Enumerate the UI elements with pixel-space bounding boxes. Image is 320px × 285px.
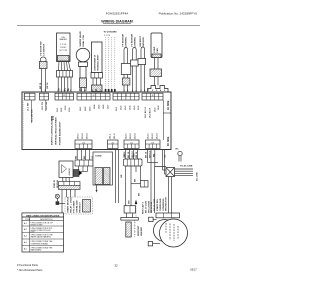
- svg-text:J4-1: J4-1: [79, 106, 82, 111]
- wire: [157, 58, 159, 70]
- wire: [162, 150, 164, 170]
- wire: [164, 150, 166, 174]
- wire: [135, 166, 137, 172]
- wire: [70, 77, 72, 92]
- wire: [68, 178, 70, 182]
- start device hatched: [83, 200, 91, 213]
- dispenser connector strip: [91, 73, 103, 79]
- svg-text:OR: OR: [121, 174, 123, 178]
- branch wire: [131, 183, 141, 185]
- wire: [137, 150, 139, 159]
- svg-text:J6-3: J6-3: [155, 107, 157, 112]
- arrow marker: [79, 171, 82, 175]
- svg-text:Publication No. 242289FFY0: Publication No. 242289FFY0: [159, 12, 198, 16]
- board connector J5: [113, 93, 139, 100]
- wire: [57, 77, 59, 92]
- board connector J1: [25, 93, 36, 100]
- wire: [180, 156, 182, 162]
- svg-text:J13-2: J13-2: [152, 133, 154, 139]
- svg-text:FZ DOOR SW: FZ DOOR SW: [41, 41, 43, 56]
- svg-text:J2-1 TN: J2-1 TN: [42, 102, 44, 110]
- wire: [61, 190, 63, 214]
- svg-text:J5-6: J5-6: [138, 105, 140, 110]
- svg-text:OR 18: OR 18: [47, 82, 49, 89]
- dashed harness wire: [108, 37, 110, 92]
- svg-text:05/17: 05/17: [190, 268, 197, 272]
- FZ thermistor loop: [133, 48, 137, 93]
- svg-text:ALARM: ALARM: [68, 168, 71, 175]
- wire: [64, 77, 66, 92]
- svg-text:OVERLOAD: OVERLOAD: [75, 200, 78, 213]
- svg-text:VERTICAL MULLION MAIN: VERTICAL MULLION MAIN: [55, 117, 58, 145]
- svg-text:RC: RC: [176, 149, 180, 151]
- svg-text:DESCRIPTION: DESCRIPTION: [40, 219, 53, 221]
- wire: [96, 78, 98, 85]
- wire: [76, 150, 78, 160]
- wire: [132, 213, 134, 218]
- svg-text:RUN CAP 4: RUN CAP 4: [142, 201, 145, 214]
- wire: [130, 166, 132, 206]
- wire: [153, 243, 160, 245]
- svg-text:LT SWITCH: LT SWITCH: [44, 43, 46, 55]
- wire stub: [162, 100, 164, 140]
- wire: [140, 166, 142, 181]
- table row A3: [22, 238, 64, 240]
- svg-text:HEATER: HEATER: [140, 227, 143, 236]
- svg-text:BK: BK: [134, 178, 136, 182]
- wire: [154, 77, 156, 86]
- svg-text:J1-1 BK: J1-1 BK: [28, 102, 30, 111]
- svg-text:J4-4: J4-4: [93, 104, 96, 109]
- header rule: [17, 24, 200, 26]
- wire: [79, 171, 88, 173]
- wire: [59, 202, 65, 204]
- defrost heater element hatched: [126, 222, 131, 237]
- wire connector table frame: [22, 213, 64, 252]
- harness terminals: [105, 89, 107, 92]
- wire: [154, 58, 156, 70]
- svg-text:COMPRESS: COMPRESS: [163, 198, 165, 211]
- svg-text:N P V W: N P V W: [59, 50, 67, 52]
- svg-text:J13-1: J13-1: [148, 133, 150, 139]
- svg-text:FGHS2631PF4A: FGHS2631PF4A: [106, 12, 129, 16]
- svg-text:J3-3: J3-3: [65, 105, 67, 110]
- wire: [78, 166, 80, 172]
- svg-text:FAN: FAN: [156, 48, 159, 53]
- svg-text:J6-2 AC N: J6-2 AC N: [148, 107, 151, 118]
- table header row: [22, 213, 64, 217]
- wire: [87, 166, 89, 172]
- wire: [60, 77, 62, 92]
- wire: [45, 69, 47, 93]
- svg-text:J6-1 AC L1: J6-1 AC L1: [144, 106, 147, 118]
- ice maker box: [57, 33, 71, 62]
- board connector J10: [75, 140, 92, 149]
- svg-text:WH 14: WH 14: [148, 151, 151, 158]
- wire: [175, 170, 194, 172]
- wire: [129, 150, 131, 159]
- svg-text:CODE: CODE: [25, 219, 31, 221]
- wire: [85, 150, 87, 160]
- wire: [41, 69, 43, 93]
- svg-text:J10-2: J10-2: [82, 133, 84, 139]
- connector A-4: [141, 181, 149, 188]
- board connector J13: [146, 140, 161, 149]
- svg-text:AC SIDE: AC SIDE: [167, 100, 170, 110]
- svg-text:BK: BK: [139, 192, 141, 196]
- run capacitor thermistor: [178, 151, 182, 155]
- svg-text:DISPENSER UI: DISPENSER UI: [95, 55, 97, 71]
- svg-text:A-4: A-4: [24, 241, 27, 244]
- svg-text:BK 14: BK 14: [144, 151, 147, 158]
- dispenser plug hatched: [92, 85, 103, 92]
- svg-text:GN: GN: [165, 154, 167, 158]
- board connector J11: [108, 140, 119, 149]
- condenser fan plug hatched left: [95, 168, 103, 185]
- wire: [125, 166, 127, 206]
- svg-text:1 2 3 4: 1 2 3 4: [60, 44, 67, 46]
- svg-text:J1-2 DR WH: J1-2 DR WH: [32, 109, 34, 122]
- svg-text:32: 32: [114, 264, 118, 268]
- wire: [74, 190, 76, 198]
- inverter connector strip: [59, 182, 81, 186]
- wire: [154, 167, 156, 214]
- svg-text:A-5: A-5: [24, 248, 27, 251]
- inverter plug hatched: [59, 185, 81, 189]
- svg-text:WH-12 RUN: WH-12 RUN: [148, 200, 150, 213]
- compressor dome left: [154, 220, 176, 242]
- svg-text:A-1: A-1: [24, 222, 27, 225]
- water valve plug hatched: [80, 78, 87, 88]
- svg-text:J10-3: J10-3: [87, 133, 89, 139]
- table row A2: [22, 232, 64, 234]
- compressor start device dashed box: [65, 197, 93, 214]
- svg-text:MUNTIN CONTROL BOARD: MUNTIN CONTROL BOARD: [51, 116, 54, 145]
- svg-text:J5-1: J5-1: [116, 106, 118, 111]
- board connector J2: [40, 93, 49, 100]
- wire: [80, 88, 82, 93]
- svg-text:RD-14 STA: RD-14 STA: [150, 201, 153, 213]
- svg-text:TO UI BOARD: TO UI BOARD: [104, 31, 118, 34]
- water valve flange: [79, 62, 88, 67]
- wire: [65, 178, 67, 182]
- wire: [56, 198, 58, 201]
- svg-text:J12-1: J12-1: [126, 133, 128, 139]
- svg-text:1 2 3 4: 1 2 3 4: [104, 35, 111, 37]
- svg-text:J12-2: J12-2: [130, 133, 132, 139]
- wire: [147, 150, 149, 163]
- wire: [118, 150, 120, 203]
- svg-text:HINGE COVER: HINGE COVER: [31, 224, 44, 226]
- wire: [150, 150, 152, 213]
- svg-text:WH: WH: [129, 200, 131, 204]
- svg-text:J13-3: J13-3: [157, 133, 159, 139]
- wire: [148, 162, 159, 164]
- svg-text:J3-1: J3-1: [57, 107, 59, 112]
- svg-text:RELAY + OVLD: RELAY + OVLD: [69, 197, 72, 213]
- svg-text:J6-4: J6-4: [157, 105, 160, 110]
- svg-text:J4-6: J4-6: [102, 104, 105, 109]
- svg-text:OVERLOAD: OVERLOAD: [159, 198, 162, 211]
- svg-text:J5-4: J5-4: [129, 105, 132, 110]
- condenser fan outline box: [93, 152, 113, 185]
- svg-text:A-3: A-3: [24, 235, 27, 238]
- svg-text:AC LINE: AC LINE: [196, 172, 199, 181]
- UI harness connector strip: [75, 160, 93, 166]
- wire: [157, 77, 159, 86]
- svg-text:(THERM): (THERM): [126, 37, 128, 47]
- wire: [133, 150, 135, 159]
- defrost connector strip: [124, 159, 143, 166]
- svg-text:J2-2 OR: J2-2 OR: [46, 101, 48, 110]
- svg-text:MAKER: MAKER: [60, 38, 68, 41]
- door switch bulb: [40, 57, 46, 63]
- svg-text:J11-1: J11-1: [110, 133, 112, 139]
- dashed harness wire: [111, 37, 113, 92]
- main control board outline: [22, 92, 171, 150]
- wire: [89, 150, 91, 160]
- wire: [175, 175, 194, 177]
- wire: [163, 169, 167, 171]
- lamp terminal: [56, 201, 60, 205]
- wire: [175, 172, 194, 174]
- svg-text:COMPRESSOR AREA: COMPRESSOR AREA: [31, 242, 49, 245]
- svg-text:WATER VALVE HARNESS: WATER VALVE HARNESS: [31, 236, 52, 239]
- svg-text:J3-2: J3-2: [61, 107, 63, 112]
- svg-text:J12-3: J12-3: [135, 133, 137, 139]
- svg-text:TN: TN: [86, 88, 88, 91]
- compressor wire labels: [142, 197, 168, 214]
- svg-text:J4-5: J4-5: [98, 104, 101, 109]
- defrost heater collar: [121, 218, 139, 221]
- wire: [82, 166, 84, 172]
- title underline: [103, 22, 131, 24]
- wire: [62, 178, 64, 182]
- svg-text:(THERM): (THERM): [134, 37, 136, 47]
- compressor dome right: [160, 219, 188, 247]
- svg-text:DEFROST: DEFROST: [138, 225, 140, 236]
- lamp symbol: [55, 194, 59, 198]
- svg-text:START REL: START REL: [156, 198, 159, 211]
- condenser stub arrow: [96, 190, 98, 193]
- wire: [84, 88, 86, 93]
- svg-text:DUAL COIL: DUAL COIL: [82, 34, 85, 47]
- wire stub: [30, 100, 32, 123]
- svg-text:J10-1: J10-1: [78, 133, 80, 139]
- condenser fan plug hatched right: [104, 168, 111, 185]
- wire: [125, 150, 127, 159]
- ice maker plug hatched: [58, 56, 70, 62]
- wire: [155, 150, 166, 167]
- svg-text:EVAP: EVAP: [153, 46, 156, 52]
- defrost heater cap: [124, 206, 135, 213]
- FF sensor plug: [122, 78, 130, 85]
- dispenser module box: [92, 42, 103, 73]
- svg-text:MODULE ASSY: MODULE ASSY: [97, 54, 100, 71]
- heater dashed lead: [134, 221, 136, 238]
- wire: [153, 218, 156, 220]
- table row A4: [22, 245, 64, 247]
- up arrow: [135, 200, 137, 205]
- terminal junction box: [166, 168, 175, 177]
- svg-text:PROTECT: PROTECT: [79, 202, 81, 213]
- door switch SW1: [40, 62, 48, 69]
- compressor winding marks: [166, 223, 178, 241]
- wire: [67, 77, 69, 92]
- FF sensor body: [121, 64, 131, 75]
- wire: [175, 168, 194, 170]
- svg-text:J11-2: J11-2: [114, 133, 116, 139]
- svg-text:WATER VALVE: WATER VALVE: [79, 31, 82, 47]
- svg-text:J5-3: J5-3: [125, 105, 127, 110]
- svg-text:* Non-Illustrated Parts: * Non-Illustrated Parts: [17, 268, 43, 272]
- evap fan plug hatched: [152, 54, 161, 58]
- water valve coil circle: [76, 48, 90, 62]
- wire: [165, 173, 167, 175]
- wire: [66, 190, 68, 198]
- evap fan box: [151, 33, 162, 58]
- evap fan base connector: [148, 86, 169, 93]
- wire: [99, 78, 101, 85]
- wire fan: [59, 62, 71, 71]
- svg-text:J5-2: J5-2: [121, 105, 123, 110]
- wire: [171, 177, 173, 214]
- dashed harness wire: [105, 37, 107, 92]
- FZ sensor body: [131, 60, 139, 66]
- evap fan connector hatched: [150, 69, 162, 77]
- board connector J3: [55, 93, 74, 100]
- svg-text:J5-5: J5-5: [134, 105, 136, 110]
- wire: [70, 190, 72, 198]
- FF thermistor loop: [124, 48, 128, 93]
- compressor pin square: [148, 242, 152, 246]
- wire: [126, 213, 128, 218]
- wire stub: [45, 100, 47, 111]
- dashed harness wire: [114, 37, 116, 92]
- svg-text:PWR IN: PWR IN: [54, 180, 56, 188]
- svg-text:J4-3: J4-3: [89, 106, 92, 111]
- condenser stub wire: [96, 185, 98, 190]
- svg-text:J4-2: J4-2: [84, 106, 87, 111]
- grommet dark: [74, 170, 80, 177]
- compressor pin square: [149, 217, 153, 221]
- svg-text:BR 18: BR 18: [40, 82, 42, 89]
- svg-text:WIRING DIAGRAM: WIRING DIAGRAM: [101, 19, 133, 23]
- wire: [115, 150, 117, 203]
- wire: [92, 78, 94, 85]
- inverter box: [59, 161, 73, 178]
- svg-text:COND: COND: [95, 156, 102, 158]
- svg-text:FF SENSOR: FF SENSOR: [123, 34, 125, 47]
- ice maker connector strip: [57, 71, 73, 78]
- defrost sensor body: [138, 59, 146, 65]
- svg-text:# Functional Parts: # Functional Parts: [17, 263, 39, 267]
- wire: [80, 150, 82, 160]
- svg-text:FZ SENSOR: FZ SENSOR: [131, 34, 133, 47]
- svg-text:T H M L: T H M L: [60, 47, 68, 49]
- svg-text:SENSOR: SENSOR: [143, 37, 145, 47]
- pin numbers above board: [41, 89, 167, 92]
- board connector J12: [124, 140, 139, 149]
- defrost sensor loop: [141, 47, 145, 92]
- wire: [168, 177, 170, 214]
- svg-text:DEFROST: DEFROST: [140, 35, 142, 46]
- svg-text:START DEVICE: START DEVICE: [66, 196, 69, 212]
- svg-text:BU: BU: [80, 87, 82, 91]
- table column divider: [29, 217, 31, 252]
- water valve body: [80, 67, 86, 79]
- svg-text:PTC START: PTC START: [72, 200, 75, 213]
- table subheader row: [22, 220, 64, 222]
- board connector J4: [77, 93, 110, 100]
- svg-text:POWER BOARD ASSY: POWER BOARD ASSY: [59, 121, 62, 145]
- svg-text:MAIN BOARD: MAIN BOARD: [31, 249, 42, 252]
- svg-text:PROTECTOR: PROTECTOR: [166, 197, 168, 211]
- board inner dashed border: [23, 94, 25, 149]
- svg-text:J4-7: J4-7: [107, 104, 110, 109]
- inverter symbol: [62, 165, 67, 174]
- svg-text:TO AC LINE: TO AC LINE: [180, 165, 193, 168]
- wire: [178, 156, 180, 162]
- svg-text:J3-4: J3-4: [68, 107, 71, 112]
- svg-text:A-2: A-2: [24, 228, 27, 231]
- svg-text:BK-10 COM: BK-10 COM: [145, 201, 147, 213]
- table row A1: [22, 225, 64, 227]
- AC/DC divider tick: [163, 112, 171, 114]
- compressor terminal bar: [156, 213, 180, 218]
- board connector J6: [142, 93, 163, 100]
- svg-text:DC SIDE: DC SIDE: [168, 136, 170, 146]
